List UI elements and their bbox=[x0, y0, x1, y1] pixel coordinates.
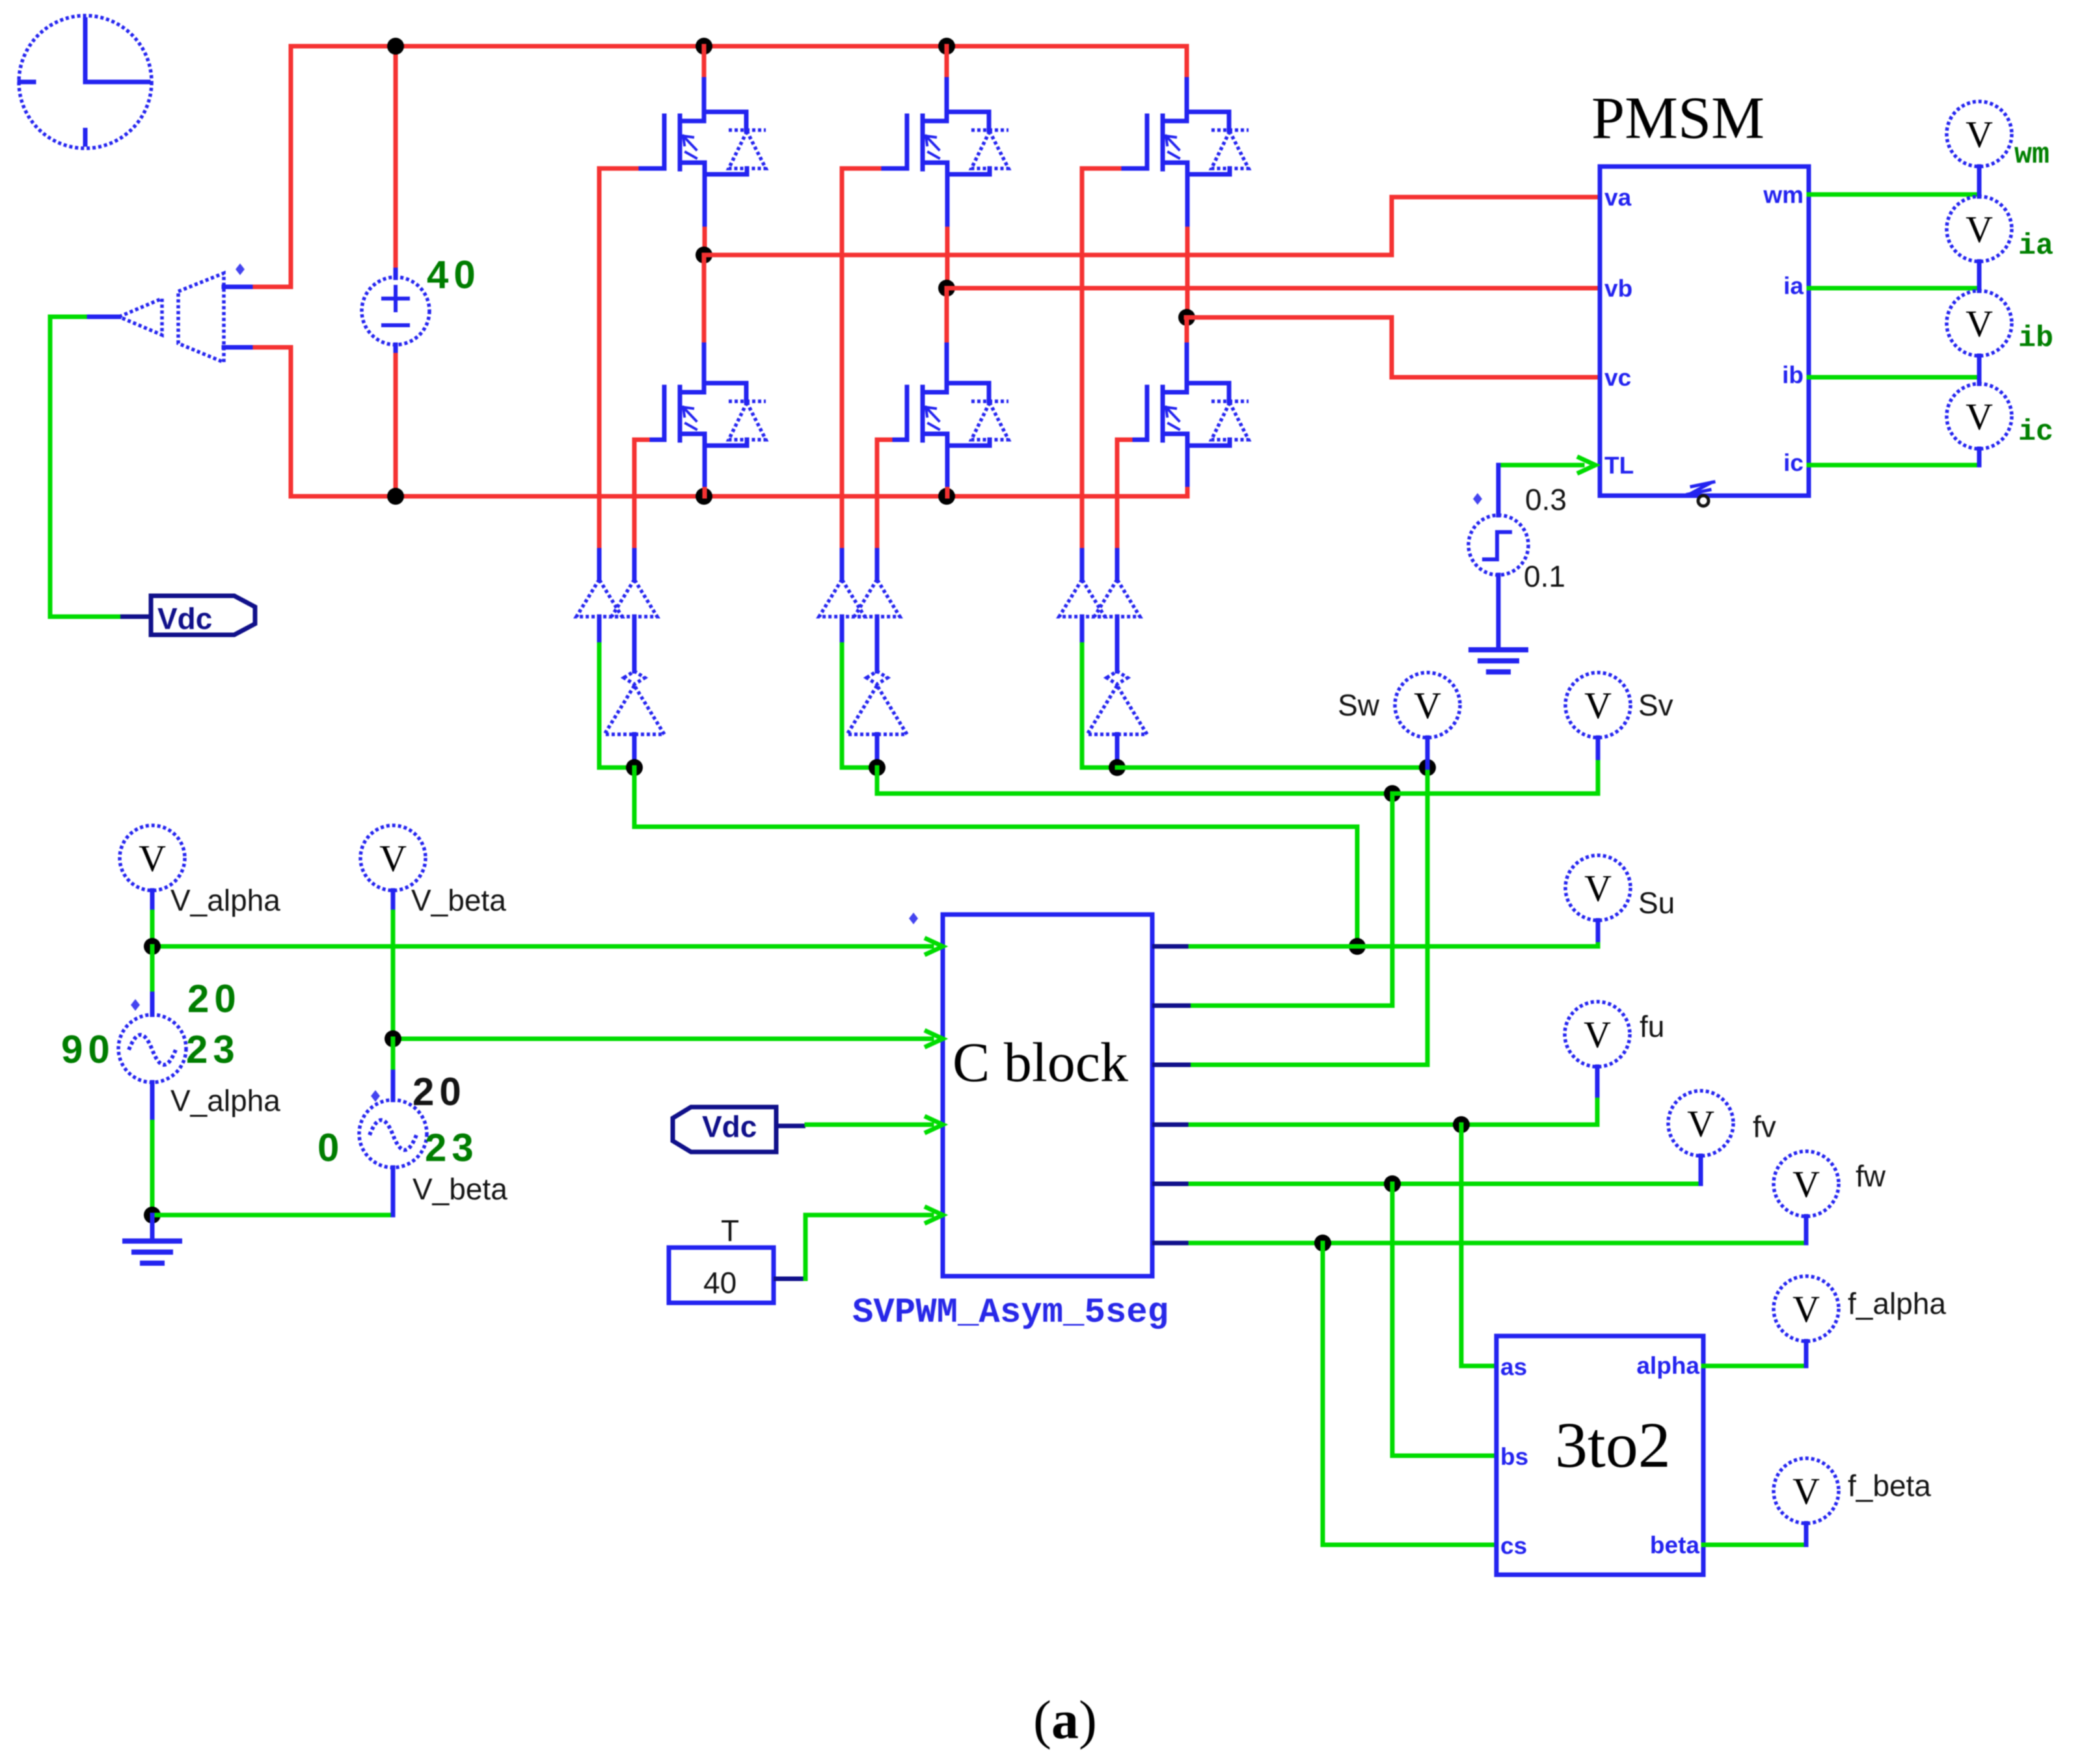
transistor Q1 (top MOSFET phase A) bbox=[636, 79, 766, 185]
svg-text:3to2: 3to2 bbox=[1555, 1409, 1671, 1481]
wire DC- bottom bus bbox=[291, 494, 1187, 499]
transistor Q2 (top MOSFET phase B) bbox=[879, 79, 1008, 185]
wire probe bottom stub bbox=[224, 345, 255, 350]
svg-text:cs: cs bbox=[1500, 1532, 1527, 1559]
node ground net bbox=[144, 1207, 161, 1223]
svg-text:C block: C block bbox=[953, 1031, 1128, 1093]
dc voltage source 40V bbox=[362, 277, 429, 345]
svg-text:Sv: Sv bbox=[1638, 688, 1673, 722]
svg-text:alpha: alpha bbox=[1636, 1352, 1699, 1379]
svg-text:SVPWM_Asym_5seg: SVPWM_Asym_5seg bbox=[852, 1293, 1169, 1333]
node net Su junction bbox=[1349, 938, 1366, 955]
clock symbol bbox=[19, 16, 152, 148]
ground symbol bbox=[125, 1241, 180, 1263]
node net Sv junction bbox=[1384, 785, 1401, 802]
wire step source to ground bbox=[1496, 575, 1501, 648]
wire red to top bus bbox=[255, 46, 291, 287]
wire DC source top stub bbox=[394, 46, 398, 270]
svg-text:va: va bbox=[1604, 184, 1632, 211]
svg-text:Vdc: Vdc bbox=[702, 1110, 757, 1143]
wire TL input bbox=[1498, 463, 1582, 468]
wire fw stub bbox=[1804, 1216, 1809, 1243]
wire meter chain segment 1 bbox=[1977, 167, 1982, 196]
voltmeter fv bbox=[1668, 1091, 1733, 1156]
voltmeter fw bbox=[1774, 1151, 1839, 1216]
svg-text:f_beta: f_beta bbox=[1848, 1469, 1931, 1503]
wire C block output 3 stub bbox=[1152, 1063, 1191, 1067]
svg-text:ia: ia bbox=[2018, 230, 2053, 263]
wire leg B top source to midpoint bbox=[945, 185, 950, 229]
node V_alpha net bbox=[144, 938, 161, 955]
ground symbol step source bbox=[1471, 650, 1526, 672]
node bottom bus leg A bbox=[696, 488, 712, 505]
wire input V_alpha to C block bbox=[152, 944, 932, 949]
wire right controller to NOT gate bbox=[875, 617, 880, 671]
wire gate lead top Q3 bbox=[1119, 167, 1147, 171]
svg-text:ib: ib bbox=[2018, 322, 2053, 355]
wire leg A midpoint to lower drain bbox=[702, 255, 707, 345]
svg-text:fw: fw bbox=[1856, 1159, 1886, 1193]
wire leg B drain from top bus bbox=[945, 46, 949, 79]
wire left controller output bbox=[840, 617, 845, 645]
node V_beta net bbox=[385, 1030, 401, 1047]
wire out5 down to bs bbox=[1392, 1184, 1496, 1456]
wire out6 down to cs bbox=[1323, 1243, 1496, 1545]
wire ground link bbox=[152, 1213, 393, 1218]
star marker C block bbox=[909, 913, 918, 924]
svg-text:23: 23 bbox=[425, 1126, 479, 1169]
voltage sensor Vdc probe bbox=[119, 273, 224, 362]
block C block (SVPWM) bbox=[943, 915, 1152, 1276]
wire V_beta source bottom bbox=[391, 1168, 396, 1215]
wire net Sw from gate C bbox=[1117, 766, 1427, 770]
wire phase A to va bbox=[704, 197, 1600, 255]
wire leg C top source to midpoint bbox=[1185, 185, 1190, 229]
svg-text:fv: fv bbox=[1753, 1110, 1776, 1143]
wire C block output 2 stub bbox=[1152, 1004, 1191, 1008]
wire fu stub bbox=[1595, 1067, 1600, 1095]
svg-text:0.3: 0.3 bbox=[1525, 483, 1567, 516]
wire alpha output bbox=[1703, 1364, 1806, 1369]
svg-text:Vdc: Vdc bbox=[157, 602, 212, 635]
wire PMSM ib output bbox=[1809, 375, 1979, 380]
wire C block output 5 stub bbox=[1152, 1182, 1191, 1186]
wire phase C to vc bbox=[1186, 317, 1600, 377]
wire V_alpha probe stub bbox=[150, 890, 155, 912]
node gate net A bbox=[626, 759, 643, 776]
wire input V_beta to C block bbox=[393, 1037, 932, 1041]
svg-text:0.1: 0.1 bbox=[1524, 559, 1565, 593]
NOT gate phase A bbox=[604, 671, 664, 734]
voltmeter V_alpha probe bbox=[120, 825, 185, 890]
svg-text:Su: Su bbox=[1638, 886, 1675, 920]
svg-text:V_beta: V_beta bbox=[411, 883, 506, 917]
wire C block output 4 stub bbox=[1152, 1123, 1191, 1127]
svg-text:fu: fu bbox=[1640, 1009, 1664, 1043]
wire PMSM wm output bbox=[1809, 193, 1979, 197]
wire leg C midpoint to lower drain bbox=[1185, 317, 1189, 345]
wire NOT gate output bbox=[632, 734, 637, 760]
svg-text:PMSM: PMSM bbox=[1591, 85, 1764, 151]
wire probe top stub bbox=[224, 285, 255, 289]
svg-text:ia: ia bbox=[1783, 273, 1804, 299]
wire gate lead bottom Q4 bbox=[647, 438, 664, 442]
svg-text:ib: ib bbox=[1782, 362, 1804, 388]
node top bus leg A bbox=[696, 38, 712, 55]
node gate net B bbox=[869, 759, 886, 776]
svg-text:vc: vc bbox=[1604, 364, 1631, 391]
node top bus leg B bbox=[938, 38, 955, 55]
wire leg B midpoint to lower drain bbox=[945, 288, 949, 345]
svg-text:TL: TL bbox=[1604, 452, 1634, 479]
star marker V_alpha bbox=[131, 999, 140, 1011]
transistor Q3 (top MOSFET phase C) bbox=[1119, 79, 1249, 185]
wire net Sw down to C out3 bbox=[1191, 768, 1427, 1065]
wire C block output 6 stub bbox=[1152, 1241, 1191, 1246]
svg-text:V_beta: V_beta bbox=[412, 1172, 507, 1206]
wire red to bottom bus bbox=[255, 347, 291, 496]
wire leg C drain from top bus bbox=[1185, 46, 1189, 79]
voltmeter Su bbox=[1565, 855, 1630, 920]
wire C out5 to fv bbox=[1191, 1182, 1701, 1186]
svg-text:20: 20 bbox=[187, 977, 241, 1021]
svg-text:Sw: Sw bbox=[1338, 688, 1380, 722]
source sine V_beta bbox=[359, 1100, 427, 1168]
svg-text:V_alpha: V_alpha bbox=[170, 1084, 280, 1117]
svg-text:23: 23 bbox=[186, 1028, 240, 1071]
voltmeter fu bbox=[1565, 1002, 1630, 1067]
wire gate lead top Q1 bbox=[636, 167, 664, 171]
wire right controller to NOT gate bbox=[632, 617, 637, 671]
wire V_alpha node to source bbox=[150, 946, 155, 994]
node top bus / source bbox=[387, 38, 404, 55]
wire C block output 1 stub bbox=[1152, 944, 1191, 949]
wire fv stub bbox=[1699, 1156, 1703, 1184]
wire gate lead bottom Q5 bbox=[890, 438, 907, 442]
node phase A midpoint bbox=[696, 247, 712, 263]
wire out4 down to as bbox=[1461, 1125, 1496, 1366]
wire gate lead top Q2 bbox=[879, 167, 907, 171]
wire NOT gate output bbox=[1115, 734, 1120, 760]
star marker bbox=[236, 263, 245, 275]
wire PMSM ia output bbox=[1809, 286, 1979, 291]
svg-text:40: 40 bbox=[703, 1266, 737, 1300]
wire ground stub bbox=[150, 1215, 155, 1240]
wire left controller output bbox=[597, 617, 602, 645]
wire meter chain segment 2 bbox=[1977, 261, 1982, 291]
svg-text:wm: wm bbox=[2014, 139, 2049, 172]
transistor Q4 (bottom MOSFET phase A) bbox=[636, 351, 766, 456]
star marker step source bbox=[1473, 493, 1482, 505]
wire V_beta node to source bbox=[391, 1039, 396, 1072]
wire leg A top source to midpoint bbox=[703, 185, 707, 229]
node bottom bus leg B bbox=[938, 488, 955, 505]
wire C out1 to Su meter bbox=[1191, 940, 1598, 946]
wire PMSM ic output bbox=[1809, 463, 1979, 468]
transistor Q6 (bottom MOSFET phase C) bbox=[1119, 351, 1249, 456]
svg-text:as: as bbox=[1500, 1354, 1527, 1380]
wire meter chain segment 3 bbox=[1977, 356, 1982, 384]
svg-text:wm: wm bbox=[1763, 181, 1804, 208]
wire net Su from gate A bbox=[634, 768, 1357, 946]
wire T box to C block bbox=[774, 1277, 805, 1281]
block PMSM machine bbox=[1600, 167, 1809, 506]
wire green probe to Vdc tag bbox=[50, 317, 120, 617]
node out4 junction bbox=[1453, 1116, 1470, 1133]
voltmeter ic bbox=[1947, 384, 2012, 449]
wire C out6 to fw bbox=[1191, 1241, 1806, 1246]
on-off controller pair phase C bbox=[1059, 580, 1140, 617]
source step (load torque) bbox=[1468, 515, 1528, 575]
wire meter chain segment 4 bbox=[1977, 449, 1982, 465]
node out6 junction bbox=[1314, 1235, 1331, 1251]
wire Sw stub bbox=[1426, 738, 1430, 768]
voltmeter f_beta bbox=[1774, 1458, 1839, 1523]
star marker V_beta bbox=[371, 1090, 380, 1102]
NOT gate phase B bbox=[847, 671, 907, 734]
svg-text:90: 90 bbox=[61, 1028, 115, 1071]
transistor Q5 (bottom MOSFET phase B) bbox=[879, 351, 1008, 456]
NOT gate phase C bbox=[1087, 671, 1147, 734]
node phase B midpoint bbox=[938, 280, 955, 297]
node net Sw junction bbox=[1419, 759, 1436, 776]
wire beta output bbox=[1703, 1543, 1806, 1547]
node bottom bus / source bbox=[387, 488, 404, 505]
voltmeter ib bbox=[1947, 291, 2012, 356]
voltmeter Sv bbox=[1565, 673, 1630, 738]
wire right controller to NOT gate bbox=[1115, 617, 1120, 671]
label tag Vdc (C block input) bbox=[673, 1107, 776, 1152]
svg-text:beta: beta bbox=[1650, 1532, 1700, 1558]
wire leg C lower source to bottom bus bbox=[1185, 456, 1190, 489]
svg-text:40: 40 bbox=[427, 253, 481, 297]
svg-text:bs: bs bbox=[1500, 1443, 1528, 1470]
svg-text:T: T bbox=[721, 1214, 739, 1248]
svg-text:f_alpha: f_alpha bbox=[1848, 1287, 1946, 1320]
wire Sv stub bbox=[1596, 738, 1601, 758]
voltmeter f_alpha bbox=[1774, 1276, 1839, 1341]
node phase C midpoint bbox=[1178, 309, 1195, 326]
on-off controller pair phase B bbox=[819, 580, 900, 617]
wire f_alpha stub bbox=[1804, 1341, 1809, 1366]
svg-text:ic: ic bbox=[1783, 449, 1804, 476]
wire gate lead bottom Q6 bbox=[1130, 438, 1147, 442]
voltmeter V_beta probe bbox=[360, 825, 426, 890]
svg-text:0: 0 bbox=[318, 1126, 344, 1169]
block 3to2 transform bbox=[1496, 1336, 1703, 1575]
wire V_alpha source bottom bbox=[150, 1082, 155, 1122]
node gate net C bbox=[1109, 759, 1126, 776]
wire left controller output bbox=[1080, 617, 1085, 645]
voltmeter wm bbox=[1947, 101, 2012, 167]
svg-text:ic: ic bbox=[2018, 416, 2053, 449]
label tag Vdc bbox=[151, 596, 255, 635]
wire NOT gate output bbox=[875, 734, 880, 760]
wire C out4 to fu bbox=[1191, 1095, 1597, 1125]
wire Vdc tag to C block bbox=[776, 1124, 805, 1129]
voltmeter Sw bbox=[1395, 673, 1460, 738]
svg-text:(a): (a) bbox=[1033, 1690, 1097, 1750]
wire navy tag stub bbox=[120, 615, 151, 619]
svg-text:vb: vb bbox=[1604, 275, 1632, 302]
source sine V_alpha bbox=[118, 1015, 186, 1082]
wire net Sv down to C out2 bbox=[1191, 794, 1392, 1006]
svg-text:V_alpha: V_alpha bbox=[170, 883, 280, 917]
wire leg A lower source to bottom bus bbox=[703, 456, 707, 489]
wire step source to TL bbox=[1496, 465, 1501, 515]
wire net Sv to meter bbox=[1392, 758, 1598, 794]
wire probe tip lead bbox=[85, 315, 119, 319]
block T constant 40 bbox=[669, 1214, 774, 1303]
wire leg A drain from top bus bbox=[702, 46, 707, 79]
wire leg B lower source to bottom bus bbox=[945, 456, 950, 489]
wire V_beta probe stub bbox=[391, 890, 396, 912]
wire DC+ top bus bbox=[291, 44, 1187, 49]
wire net Sv from gate B bbox=[877, 768, 1392, 794]
voltmeter ia bbox=[1947, 196, 2012, 261]
svg-text:20: 20 bbox=[412, 1070, 466, 1114]
wire f_beta stub bbox=[1804, 1523, 1809, 1545]
wire Su stub bbox=[1596, 920, 1601, 940]
wire phase B to vb bbox=[947, 286, 1600, 291]
wire DC source bottom stub bbox=[394, 345, 398, 355]
on-off controller pair phase A bbox=[576, 580, 657, 617]
node out5 junction bbox=[1384, 1175, 1401, 1192]
